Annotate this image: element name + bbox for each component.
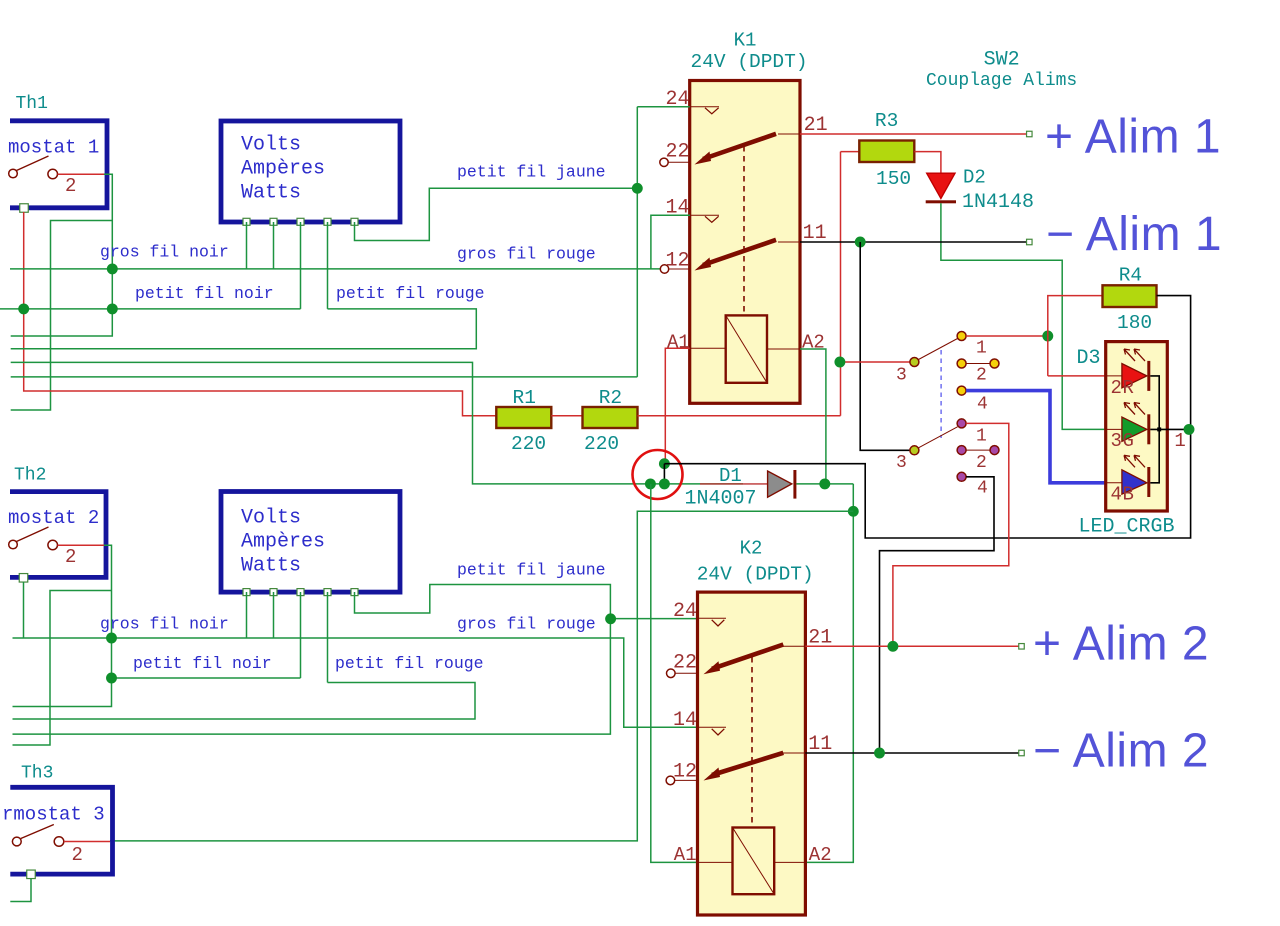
node junction D1b xyxy=(659,478,670,489)
relay K1 link xyxy=(743,146,745,313)
junction R4 xyxy=(1042,331,1053,342)
svg-text:Ampères: Ampères xyxy=(241,531,325,554)
label petit fil jaune xyxy=(457,162,606,181)
svg-text:A2: A2 xyxy=(802,332,825,354)
label SW2 value xyxy=(926,71,1077,91)
meter U2 text xyxy=(241,507,325,578)
svg-text:Ampères: Ampères xyxy=(241,158,325,181)
wire K1 pin14 feed xyxy=(651,215,690,269)
thermostat TH3 text xyxy=(2,804,105,826)
wire U2 pin2 xyxy=(273,592,275,638)
wire Th1 red xyxy=(24,212,497,416)
wire R3 vertical xyxy=(840,152,842,416)
wire Th2 stub xyxy=(13,591,112,746)
wire B1 red xyxy=(893,423,1009,647)
wire gros fil 1 xyxy=(10,268,660,270)
pin 3 D3 xyxy=(1111,430,1134,452)
svg-text:24V (DPDT): 24V (DPDT) xyxy=(697,564,814,586)
pin 1 TH3 xyxy=(27,870,36,879)
svg-text:Couplage Alims: Couplage Alims xyxy=(926,71,1077,91)
contact A4 xyxy=(957,386,988,414)
pin 21 K1 xyxy=(778,114,828,137)
wire bus jaune xyxy=(11,376,638,378)
svg-text:+ Alim 1: + Alim 1 xyxy=(1045,111,1221,164)
svg-text:rmostat 3: rmostat 3 xyxy=(2,804,105,826)
wire R3-D2 xyxy=(914,152,941,174)
contact B2 xyxy=(957,446,999,473)
pin 2 D3 xyxy=(1111,377,1134,399)
svg-text:+ Alim 2: + Alim 2 xyxy=(1033,618,1209,671)
pin 24 K2 xyxy=(673,600,726,626)
label K2 xyxy=(740,538,763,560)
switch SW2 pole B xyxy=(896,427,958,473)
junction SW2 A xyxy=(834,357,845,368)
wire R2 out xyxy=(638,415,841,417)
svg-text:petit fil jaune: petit fil jaune xyxy=(457,560,606,579)
contact B4 xyxy=(957,472,988,498)
svg-text:mostat 1: mostat 1 xyxy=(8,137,99,159)
svg-text:K1: K1 xyxy=(734,30,757,52)
svg-text:150: 150 xyxy=(876,168,911,190)
wire gros fil noir 2 xyxy=(13,638,698,727)
pin 1 D3 xyxy=(1167,429,1190,452)
svg-text:2: 2 xyxy=(976,366,987,386)
wire Th3 pin1 xyxy=(10,879,31,902)
thermostat TH2 box xyxy=(10,492,106,578)
thermostat TH3 box xyxy=(10,787,112,874)
meter U1 text xyxy=(241,134,325,205)
svg-text:24V (DPDT): 24V (DPDT) xyxy=(691,51,808,73)
wire D3 R feed xyxy=(1048,375,1107,377)
svg-text:petit fil noir: petit fil noir xyxy=(135,284,274,303)
svg-text:A1: A1 xyxy=(667,332,690,354)
label Th1 xyxy=(16,94,48,114)
node junction D1a xyxy=(645,478,656,489)
meter U1 box xyxy=(221,121,400,222)
pin 2 TH1 xyxy=(58,174,105,197)
pin 14 K1 xyxy=(666,197,720,223)
label D2 xyxy=(963,167,986,189)
wire K2 A1 xyxy=(651,484,698,863)
svg-text:4: 4 xyxy=(1111,484,1122,506)
terminal -Alim2 xyxy=(1019,750,1025,756)
pin 11 K1 xyxy=(778,222,827,245)
pin 22 K1 xyxy=(660,141,690,167)
svg-text:R4: R4 xyxy=(1119,265,1142,287)
junction noir 2b xyxy=(106,673,117,684)
meter U2 box xyxy=(221,492,400,593)
label +Alim2 xyxy=(1033,618,1209,671)
pin 24 K1 xyxy=(666,88,720,114)
junction -Alim2 xyxy=(874,748,885,759)
svg-text:3: 3 xyxy=(896,453,907,473)
wire gros fil rouge 2 xyxy=(610,618,697,620)
svg-text:D2: D2 xyxy=(963,167,986,189)
pin A2 K1 xyxy=(767,332,825,354)
highlight circle xyxy=(633,450,683,499)
svg-text:R3: R3 xyxy=(875,110,898,132)
label -Alim1 xyxy=(1046,208,1222,261)
switch contact TH3 xyxy=(12,825,63,847)
svg-text:2: 2 xyxy=(976,453,987,473)
wire U1 pin1 xyxy=(246,222,248,269)
pin 2 TH2 xyxy=(58,545,105,568)
contact A2 xyxy=(957,359,999,386)
wire SW2 A feed xyxy=(841,361,912,363)
meter U1 pins xyxy=(243,218,358,225)
svg-text:2: 2 xyxy=(72,844,83,866)
label petit fil jaune 2 xyxy=(457,560,606,579)
terminal -Alim1 xyxy=(1027,239,1033,245)
svg-text:4: 4 xyxy=(977,394,988,414)
relay K2 coil xyxy=(733,828,775,895)
label +Alim1 xyxy=(1045,111,1221,164)
pin A1 K1 xyxy=(667,332,726,354)
svg-text:petit fil jaune: petit fil jaune xyxy=(457,162,606,181)
svg-text:gros fil noir: gros fil noir xyxy=(100,243,229,262)
resistor R4 xyxy=(1103,265,1157,335)
svg-text:gros fil noir: gros fil noir xyxy=(100,614,229,633)
svg-text:B: B xyxy=(1123,484,1134,506)
svg-text:22: 22 xyxy=(666,141,690,164)
pin A2 K2 xyxy=(774,844,831,866)
label Th3 xyxy=(21,764,53,784)
svg-text:220: 220 xyxy=(511,433,546,455)
pin 11 K2 xyxy=(783,733,832,756)
label Th2 xyxy=(14,466,46,486)
svg-text:SW2: SW2 xyxy=(984,49,1020,72)
junction gros fil rouge xyxy=(605,613,616,624)
junction noir 2a xyxy=(106,633,117,644)
label D2 value xyxy=(962,191,1034,214)
relay K1 body xyxy=(690,81,800,404)
pin 22 K2 xyxy=(667,651,698,677)
relay K2 body xyxy=(698,592,806,915)
junction K2 top xyxy=(848,506,859,517)
svg-text:petit fil rouge: petit fil rouge xyxy=(335,654,484,673)
wire petit fil noir 2 xyxy=(112,677,301,679)
svg-text:14: 14 xyxy=(673,709,697,732)
wire R4 feed xyxy=(1048,296,1103,376)
wire A1-R4 xyxy=(966,335,1048,337)
label LED_CRGB xyxy=(1079,516,1175,539)
junction D3 pin1 xyxy=(1184,424,1195,435)
switch contact TH2 xyxy=(9,527,58,550)
svg-text:K2: K2 xyxy=(740,538,763,560)
junction A2 xyxy=(819,478,830,489)
relay K1 coil xyxy=(726,315,767,382)
pin 1 TH1 xyxy=(20,204,29,213)
svg-text:petit fil rouge: petit fil rouge xyxy=(336,284,485,303)
label gros fil noir xyxy=(100,243,229,262)
wire U1 pin3 xyxy=(300,222,302,309)
label K1 value xyxy=(691,51,808,73)
wire coil return xyxy=(805,484,853,863)
svg-text:2: 2 xyxy=(65,546,76,568)
svg-text:1: 1 xyxy=(1174,430,1185,452)
svg-text:3: 3 xyxy=(1111,430,1122,452)
wire R1-R2 xyxy=(551,415,582,417)
thermostat TH1 text xyxy=(8,137,99,159)
wire jaune vertical xyxy=(636,107,638,377)
svg-text:1N4148: 1N4148 xyxy=(962,191,1034,214)
meter U2 pins xyxy=(243,589,358,596)
svg-text:A2: A2 xyxy=(809,844,832,866)
relay K1 lever b xyxy=(695,240,777,271)
junction noir 1 xyxy=(107,263,118,274)
svg-text:180: 180 xyxy=(1117,312,1152,334)
svg-text:12: 12 xyxy=(673,760,697,783)
svg-text:D1: D1 xyxy=(719,465,742,487)
svg-text:22: 22 xyxy=(673,651,697,674)
label D3 xyxy=(1077,347,1101,370)
label gros fil rouge 2 xyxy=(457,615,596,634)
wire U2 pin3 xyxy=(300,592,302,678)
resistor R3 xyxy=(841,110,915,190)
wire +Alim1 xyxy=(800,133,1027,135)
junction jaune xyxy=(632,183,643,194)
led D3 red xyxy=(1106,349,1151,391)
junction noir 3 xyxy=(18,303,29,314)
svg-text:24: 24 xyxy=(673,600,697,623)
wire Th1 out xyxy=(11,174,113,336)
wire node link xyxy=(663,464,665,484)
svg-text:D3: D3 xyxy=(1077,347,1101,370)
wire petit fil rouge 2 xyxy=(13,683,476,720)
terminal +Alim1 xyxy=(1027,131,1033,137)
thermostat TH2 text xyxy=(8,507,99,529)
wire R4 black xyxy=(664,296,1190,538)
wire +Alim2 xyxy=(805,645,1021,647)
thermostat TH1 box xyxy=(10,121,107,208)
node junction A1 xyxy=(659,458,670,469)
pin 14 K2 xyxy=(673,709,726,735)
label K1 xyxy=(734,30,757,52)
wire U1 pin4 xyxy=(327,222,329,309)
diode D2 xyxy=(926,173,956,203)
svg-text:petit fil noir: petit fil noir xyxy=(133,654,272,673)
wire petit fil noir 1 xyxy=(0,308,301,310)
pin 2 TH3 xyxy=(64,842,110,867)
svg-text:A1: A1 xyxy=(674,844,697,866)
led D3 cathode bus xyxy=(1150,376,1167,483)
wire D1 out xyxy=(796,483,853,485)
svg-text:Watts: Watts xyxy=(241,182,301,205)
wire B4 black xyxy=(880,477,995,753)
svg-text:1: 1 xyxy=(976,339,987,359)
resistor R1 xyxy=(496,387,551,455)
pin 1 TH2 xyxy=(19,574,28,583)
switch contact TH1 xyxy=(9,156,58,179)
pin 12 K2 xyxy=(666,760,697,784)
label -Alim2 xyxy=(1033,725,1209,778)
svg-text:Volts: Volts xyxy=(241,507,301,530)
svg-text:Th2: Th2 xyxy=(14,466,46,486)
pin 12 K1 xyxy=(660,250,689,274)
label gros fil rouge xyxy=(457,244,596,263)
svg-text:Watts: Watts xyxy=(241,555,301,578)
svg-text:2: 2 xyxy=(1111,377,1122,399)
svg-text:R: R xyxy=(1123,377,1134,399)
svg-text:220: 220 xyxy=(584,433,619,455)
wire K1 pin24 feed xyxy=(637,106,689,108)
svg-text:Th3: Th3 xyxy=(21,764,53,784)
svg-text:gros fil rouge: gros fil rouge xyxy=(457,615,596,634)
relay K2 link xyxy=(751,657,753,825)
svg-text:4: 4 xyxy=(977,479,988,499)
svg-text:3: 3 xyxy=(896,366,907,386)
junction -Alim1 xyxy=(855,237,866,248)
wire U2 pin4 xyxy=(327,592,329,683)
wire SW2 B feed xyxy=(860,242,912,450)
wire petit fil jaune 1 xyxy=(355,188,638,240)
diode D1 xyxy=(700,470,796,499)
led D3 blue xyxy=(1106,455,1151,497)
svg-text:gros fil rouge: gros fil rouge xyxy=(457,244,596,263)
label petit fil rouge xyxy=(336,284,485,303)
svg-text:− Alim 2: − Alim 2 xyxy=(1033,725,1209,778)
junction +Alim2 xyxy=(887,641,898,652)
svg-text:2: 2 xyxy=(65,175,76,197)
pin 4 D3 xyxy=(1111,484,1134,506)
relay K2 lever b xyxy=(704,753,784,781)
wire K2 top xyxy=(110,511,853,841)
label K2 value xyxy=(697,564,814,586)
wire -Alim1 xyxy=(800,241,1027,243)
wire A4 blue xyxy=(966,391,1106,483)
resistor R2 xyxy=(583,387,638,455)
terminal +Alim2 xyxy=(1019,644,1025,650)
svg-text:R2: R2 xyxy=(599,387,622,409)
svg-text:1N4007: 1N4007 xyxy=(685,488,757,511)
svg-text:12: 12 xyxy=(666,250,690,273)
svg-text:− Alim 1: − Alim 1 xyxy=(1046,208,1222,261)
pin A1 K2 xyxy=(674,844,733,866)
label D1 xyxy=(719,465,742,487)
relay K1 lever a xyxy=(695,134,777,165)
wire D2 out xyxy=(941,203,1107,429)
relay K2 lever a xyxy=(704,645,784,675)
svg-text:Th1: Th1 xyxy=(16,94,48,114)
wire Th2 out xyxy=(13,545,112,706)
svg-text:R1: R1 xyxy=(513,387,536,409)
led D3 green xyxy=(1106,403,1151,445)
label petit fil rouge 2 xyxy=(335,654,484,673)
label D1 value xyxy=(685,488,757,511)
svg-text:mostat 2: mostat 2 xyxy=(8,507,99,529)
label petit fil noir xyxy=(135,284,274,303)
label SW2 xyxy=(984,49,1020,72)
junction noir 2 xyxy=(107,303,118,314)
wire A1 K1 red xyxy=(665,348,689,463)
led D3 box xyxy=(1106,342,1168,511)
wire U1 pin2 xyxy=(273,222,275,269)
label petit fil noir 2 xyxy=(133,654,272,673)
wire petit fil jaune 2 xyxy=(13,585,611,735)
wire U2 pin1 xyxy=(246,592,248,638)
svg-text:Volts: Volts xyxy=(241,134,301,157)
wire -Alim2 xyxy=(805,752,1021,754)
svg-text:1: 1 xyxy=(976,427,987,447)
switch SW2 pole A xyxy=(896,339,958,386)
contact B1 xyxy=(957,419,987,447)
wire petit fil rouge 1 xyxy=(11,309,477,349)
pin 21 K2 xyxy=(783,626,832,649)
wire Th2 pin1 xyxy=(23,582,25,638)
svg-text:G: G xyxy=(1123,430,1134,452)
contact A1 xyxy=(957,332,987,359)
wire stub left xyxy=(11,221,113,411)
svg-text:LED_CRGB: LED_CRGB xyxy=(1079,516,1175,539)
wire A2 K1 green xyxy=(800,349,826,484)
wire bus D1 feed xyxy=(11,362,743,484)
label gros fil noir 2 xyxy=(100,614,229,633)
mech link SW2 xyxy=(940,350,942,438)
